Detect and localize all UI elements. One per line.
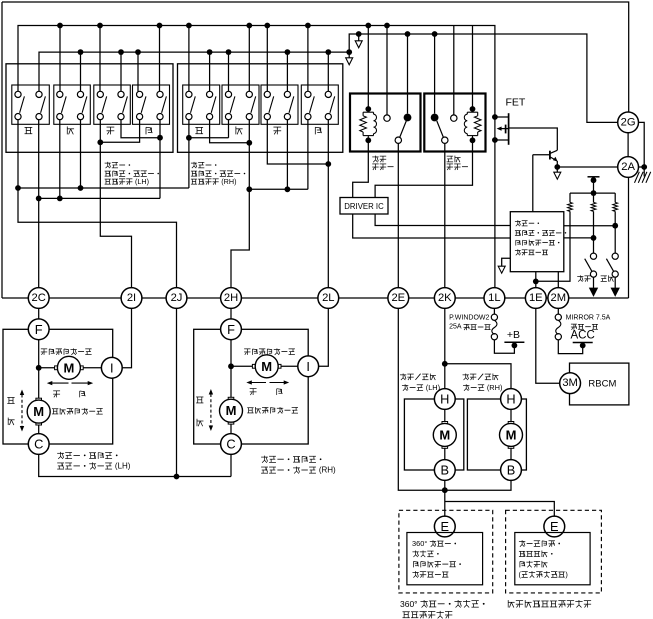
wire switch to B1 [159, 26, 161, 92]
node [15, 185, 21, 191]
svg-text:2G: 2G [621, 116, 636, 128]
node [78, 185, 84, 191]
svg-text:F: F [227, 322, 235, 337]
wire H-M [510, 409, 512, 421]
node bus B2 junction [135, 49, 141, 55]
connector 2L [318, 288, 339, 309]
wire Q1 emitter node [556, 161, 558, 172]
wire 1E to 3M [536, 308, 560, 383]
wire module to 2M [557, 272, 559, 288]
wire fuse1 to +B [494, 340, 514, 354]
node bus B2 junction [346, 49, 352, 55]
wire RH link1 [189, 137, 229, 139]
label right RH [276, 389, 278, 395]
connector pin H [501, 389, 522, 410]
connector pin B [434, 460, 455, 481]
wire ground trunk top [2, 2, 629, 112]
svg-text:360°: 360° [400, 599, 420, 609]
svg-text:M: M [63, 360, 74, 375]
svg-text:M: M [33, 404, 44, 419]
wire K2 coil top [472, 26, 474, 110]
wire switch to B2 [209, 52, 211, 91]
wire LH upL down [18, 120, 177, 288]
resistor R1 [569, 193, 571, 202]
relay K1 common contact [395, 137, 401, 143]
caption parking system [507, 600, 509, 607]
svg-text:2A: 2A [621, 161, 635, 173]
svg-text:2J: 2J [171, 292, 183, 304]
svg-text:2C: 2C [32, 292, 46, 304]
label 上 [25, 126, 33, 128]
wire K1 coil to IC [353, 140, 369, 197]
node [186, 135, 192, 141]
node ACC [580, 343, 586, 349]
label right [79, 391, 81, 397]
label M2 RH [247, 407, 253, 409]
wire K1 common to 2E [397, 143, 399, 287]
label left RH [250, 388, 257, 390]
relay K1 NC contact [384, 115, 390, 121]
wire IC pin to module B [353, 214, 511, 238]
wire RH upR [210, 120, 250, 143]
ground arrow [611, 288, 619, 296]
label 上 [195, 126, 203, 128]
connector pin C RH [221, 434, 242, 455]
wire LH dnL [59, 120, 61, 199]
wire emitter to 2A [557, 166, 617, 168]
switch return SW2 [612, 253, 618, 259]
wire RH lfL [267, 120, 328, 164]
svg-text:): ) [565, 570, 567, 579]
wire M2 to C [38, 425, 40, 434]
connector 2M [548, 288, 569, 309]
label retract RH [463, 374, 469, 376]
wire I to 2I [122, 308, 131, 367]
wire 2K down [444, 308, 446, 388]
svg-text:C: C [226, 437, 235, 452]
wire IC pin to module A [375, 214, 510, 226]
wire 2A right [639, 166, 645, 168]
motor box RH [194, 329, 309, 444]
wire to M1 RH [231, 365, 255, 367]
power feed +B bar [504, 341, 524, 343]
wire to M1 [39, 367, 58, 369]
wire branch E2 [445, 502, 555, 517]
relay K1 NO contact [404, 114, 412, 122]
node [228, 363, 234, 369]
wire K1 NC top [386, 26, 388, 115]
node bus B2 junction [207, 49, 213, 55]
node bus B2 junction [325, 49, 331, 55]
node [285, 186, 291, 192]
module parking box [515, 533, 590, 585]
wire RH dnL [228, 120, 230, 138]
node [246, 186, 252, 192]
wire F down RH [230, 340, 232, 400]
label left [53, 390, 60, 392]
switch 右 [133, 85, 170, 124]
wire R3 down [614, 211, 616, 253]
wire R1 to 1E net [536, 211, 570, 281]
svg-text:2K: 2K [438, 292, 452, 304]
switch 上 [183, 85, 220, 124]
node [57, 196, 63, 202]
node bus B1 junction [246, 23, 252, 29]
node bus B2 junction [285, 49, 291, 55]
wire switch to B1 [99, 26, 101, 92]
wire switch to B2 [80, 52, 82, 91]
switch retract SW1 [590, 253, 596, 259]
svg-text:(RH): (RH) [485, 383, 503, 392]
connector 2A [618, 157, 639, 178]
connector 2I [121, 288, 142, 309]
svg-text:(RH): (RH) [219, 177, 236, 186]
label motor RH [261, 456, 268, 458]
wire K1 coil top [367, 26, 369, 110]
wire K2 coil to IC [375, 140, 472, 197]
option box dashed R [506, 510, 602, 593]
svg-text:(LH): (LH) [133, 177, 149, 186]
svg-text:2I: 2I [127, 292, 136, 304]
connector 1L [484, 288, 505, 309]
node bus B1 junction [305, 23, 311, 29]
wire LH rtL [100, 120, 139, 143]
node rail [591, 190, 597, 196]
wire switch to B2 [327, 52, 329, 91]
wire C down LH [39, 454, 231, 476]
arrow left [49, 382, 69, 384]
label 右 [314, 127, 316, 134]
wire RH rtR to 2L [327, 120, 329, 288]
label up RH [196, 396, 203, 398]
wire SW2 gnd [614, 277, 616, 288]
label module U1 [515, 220, 521, 222]
wire M-B [444, 448, 446, 459]
wire 2J down [176, 308, 178, 476]
power feed bar [588, 176, 600, 178]
label switch RH [191, 162, 197, 164]
connector pin B [501, 460, 522, 481]
svg-text:2H: 2H [224, 292, 238, 304]
wire LH upR to 2C [38, 120, 40, 288]
wire resistor rail [570, 192, 615, 194]
relay K2 box [424, 94, 485, 152]
label 下 [235, 126, 237, 134]
connector pin F LH [28, 319, 49, 340]
wire switch to B2 [286, 52, 288, 91]
node FET d1 [492, 114, 498, 120]
connector pin F RH [221, 319, 242, 340]
wire RH lfR [286, 120, 288, 190]
wire switch to B2 [228, 52, 230, 91]
label 下 [66, 126, 68, 134]
node Q1 emitter [554, 164, 560, 170]
module RBCM box [570, 363, 629, 405]
wire M1 to I [83, 367, 101, 369]
wire branch RH H [445, 364, 511, 389]
node bus B1 junction [57, 23, 63, 29]
wire feed [593, 177, 595, 193]
connector pin I LH [101, 357, 122, 378]
svg-text:B: B [441, 463, 450, 478]
svg-text:M: M [226, 403, 237, 418]
arrow right [72, 382, 92, 384]
wire I to 2L [319, 308, 329, 366]
label 左 [107, 126, 115, 128]
fuse F1 P.WINDOW2 [491, 314, 497, 320]
connector 2E [388, 288, 409, 309]
node bus B2a junction [432, 31, 438, 37]
wire M2 to C RH [230, 424, 232, 434]
connector pin E L [434, 516, 455, 537]
wire Q1 base to module [532, 155, 534, 212]
motor M2 RH vertical [228, 420, 234, 424]
wire FET drain to Q1 [509, 128, 558, 150]
node bus B2 junction [226, 49, 232, 55]
connector arrow [355, 41, 362, 48]
wire switch to B1 [307, 26, 309, 92]
svg-text:ACC: ACC [571, 330, 595, 342]
node bus B1 junction [186, 23, 192, 29]
label motor LH [57, 452, 64, 454]
wire connector row line [2, 297, 629, 299]
power feed ACC bar [573, 342, 593, 344]
switch assembly box LH [6, 64, 173, 153]
wire switch to B2 [120, 52, 122, 91]
wire LH rtR [159, 120, 161, 199]
ground [635, 172, 640, 183]
wire M-B [510, 448, 512, 459]
node [246, 140, 252, 146]
relay K2 NC contact [451, 115, 457, 121]
module box U1 [510, 212, 564, 272]
wire B2a tap [358, 34, 360, 41]
wire C down RH [230, 454, 232, 476]
svg-text:E: E [441, 519, 450, 534]
transistor Q1 [549, 151, 551, 160]
connector arrow [346, 58, 353, 65]
svg-text:P.WINDOW2: P.WINDOW2 [449, 315, 489, 322]
wire switch to B1 [248, 26, 250, 92]
wire 2H to F [230, 308, 232, 319]
label M1 RH [244, 348, 250, 350]
svg-text:M: M [506, 427, 517, 442]
node [157, 135, 163, 141]
ic DRIVER IC box [340, 198, 388, 215]
svg-text:MIRROR 7.5A: MIRROR 7.5A [566, 315, 611, 322]
label down RH [196, 419, 198, 426]
wire K2 NC top [453, 26, 455, 115]
wire switch to B1 [188, 26, 190, 92]
wire 2C to F [38, 308, 40, 319]
wire switch to B1 [266, 26, 268, 92]
label relay K1 [372, 156, 378, 158]
connector 2K [434, 288, 455, 309]
label 右 [145, 127, 147, 134]
label retract LH [400, 374, 406, 376]
svg-text:B: B [507, 463, 516, 478]
connector 2J [166, 288, 187, 309]
connector arrow [554, 172, 561, 179]
label M1 LH [41, 348, 47, 350]
wire 2G-2A link [627, 133, 629, 157]
svg-text:E: E [550, 519, 559, 534]
svg-text:H: H [506, 392, 515, 407]
relay K2 coil [470, 106, 476, 112]
relay K1 box [350, 94, 421, 152]
wire B2 tap [348, 52, 350, 58]
wire LH lfR [121, 120, 160, 138]
svg-text:2E: 2E [391, 292, 405, 304]
label SW1 [577, 276, 583, 278]
wire H-M [444, 409, 446, 421]
label M2 LH [52, 408, 58, 410]
node [533, 279, 539, 285]
svg-text:RBCM: RBCM [588, 379, 616, 390]
wire switch to B2 [137, 52, 139, 91]
wire fuse2 to ACC [558, 340, 582, 354]
node [97, 139, 103, 145]
node [174, 474, 180, 480]
transistor FET [508, 113, 510, 145]
node bus B2 junction [78, 49, 84, 55]
svg-text:(LH): (LH) [113, 461, 131, 470]
relay K1 coil [365, 106, 371, 112]
relay K2 NO contact [431, 114, 439, 122]
node FET d2 [492, 137, 498, 143]
switch 下 [222, 85, 259, 124]
wire module right pin2 [564, 237, 594, 239]
svg-text:2M: 2M [551, 292, 567, 304]
node [36, 365, 42, 371]
node [442, 361, 448, 367]
wire LH lfL to 2I [100, 120, 131, 288]
connector pin C LH [28, 434, 49, 455]
label 左 [273, 126, 281, 128]
svg-text:+B: +B [507, 329, 520, 341]
wire 2A to row [628, 177, 630, 298]
connector pin I RH [298, 356, 319, 377]
connector 3M [560, 373, 581, 394]
svg-text:H: H [440, 392, 449, 407]
wire M1 to I RH [281, 365, 298, 367]
connector pin E R [544, 516, 565, 537]
wire R2 down [593, 211, 595, 253]
motor M retract [442, 445, 448, 449]
wire LH dnR [80, 120, 82, 188]
switch assembly box RH [178, 64, 343, 153]
option box dashed L [399, 510, 493, 593]
node bus B2a junction [356, 31, 362, 37]
connector 2H [221, 288, 242, 309]
svg-text:I: I [306, 359, 310, 374]
relay K1 blade [400, 121, 407, 137]
switch 左 [94, 85, 131, 124]
wire SW1 gnd [593, 277, 595, 288]
wire K2 NO top [434, 34, 436, 114]
connector 1E [525, 288, 546, 309]
switch 左 [261, 85, 298, 124]
resistor R3 [614, 193, 616, 202]
svg-text:DRIVER IC: DRIVER IC [344, 202, 384, 211]
svg-text:1E: 1E [529, 292, 543, 304]
motor M1 RH horizontal [275, 364, 281, 368]
svg-text:FET: FET [506, 97, 526, 109]
svg-text:M: M [439, 427, 450, 442]
relay K2 common contact [442, 137, 448, 143]
node [612, 223, 618, 229]
label relay K2 [447, 155, 453, 157]
node bus B1 junction [264, 23, 270, 29]
svg-text:25A: 25A [449, 324, 463, 331]
node [591, 235, 597, 241]
wire bus B1 [18, 26, 495, 288]
node bus B1 junction [384, 23, 390, 29]
node bus B2a junction [405, 31, 411, 37]
wire module right pin1 [564, 225, 615, 227]
svg-text:M: M [261, 359, 272, 374]
wire RH upL [188, 120, 190, 188]
svg-text:360°: 360° [412, 539, 429, 548]
switch 下 [54, 85, 91, 124]
arrow right RH [270, 382, 288, 384]
relay K2 blade [437, 121, 444, 137]
label SW2 [601, 275, 607, 277]
wire 2M to fuse [557, 308, 559, 314]
node +B [512, 343, 518, 349]
retract motor box RH [467, 399, 526, 470]
wire RH dnR to 2H [231, 120, 249, 288]
connector pin H [434, 389, 455, 410]
wire 2E down [398, 308, 511, 490]
svg-text:F: F [35, 322, 43, 337]
connector 2C [28, 288, 49, 309]
wire F down [38, 340, 40, 400]
fuse F2 MIRROR [555, 314, 561, 320]
node feed [591, 177, 597, 183]
resistor R2 [593, 193, 595, 202]
svg-text:I: I [110, 360, 114, 375]
motor M1 LH horizontal [78, 366, 84, 370]
connector 2G [618, 112, 639, 133]
wire K1 NO top [407, 34, 409, 114]
wire ground trunk left edge [1, 2, 3, 298]
module 360 box [407, 533, 483, 585]
wire RH rtL [307, 120, 309, 190]
retract motor box LH [404, 399, 463, 470]
wire net-A line [18, 187, 189, 189]
wire B LH down [444, 480, 446, 516]
motor box LH [3, 329, 113, 444]
node [325, 161, 331, 167]
node bus B1 junction [157, 23, 163, 29]
wire Q1 base [533, 154, 550, 156]
svg-text:3M: 3M [562, 377, 578, 389]
svg-text:1L: 1L [488, 292, 500, 304]
wire K2 common to 2K [444, 143, 446, 287]
switch 上 [12, 85, 50, 124]
wire 2G right to ground [639, 122, 645, 176]
label down [7, 418, 9, 425]
updown arrow RH [210, 394, 212, 426]
node 2A-ground junction [641, 164, 647, 170]
motor M2 LH vertical [36, 421, 42, 425]
label parking module [519, 541, 525, 543]
svg-text:(RH): (RH) [317, 466, 336, 475]
node bus B1 junction [97, 23, 103, 29]
wire net-B line [39, 197, 160, 199]
switch 右 [301, 85, 338, 124]
